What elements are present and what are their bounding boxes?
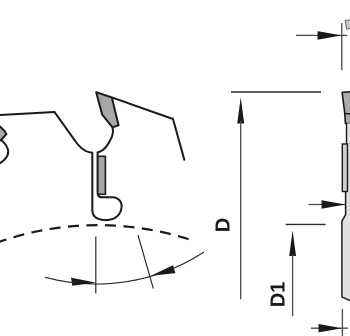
side-view carbide tooth (edge view, right) (342, 92, 350, 124)
top width dimension: extension line (341, 23, 343, 70)
angle arrowhead left (71, 278, 96, 286)
angle arrowhead right (151, 265, 176, 276)
top width dimension: arrowhead (318, 31, 342, 40)
dashed pitch-circle arc (0, 225, 190, 243)
angle dimension: slanted reference line (138, 235, 153, 289)
svg-text:D1: D1 (268, 282, 290, 308)
wire: saw rim outline with gullet and expansion slot (face view) (0, 97, 184, 220)
carbide tip fragment of left tooth (0, 125, 6, 141)
bottom width dimension: shaft (311, 327, 348, 329)
wire: left tooth gullet fragment (0, 140, 8, 164)
bottom width dimension: extension line (341, 309, 343, 336)
D1 reference line (286, 223, 326, 225)
dimension D line (240, 121, 242, 299)
angle dimension: radial reference line (vertical) (95, 237, 97, 294)
middle width dimension: shaft (309, 204, 346, 206)
dimension D1 arrow (289, 231, 296, 257)
side-view lower plate outline (342, 192, 350, 301)
angle dimension arc (45, 252, 204, 284)
D reference line (top of tooth, edge view) (231, 91, 321, 93)
side-view tooth seat line (345, 113, 350, 115)
top width dimension: shaft (296, 34, 347, 36)
bottom width dimension: arrowhead (319, 324, 343, 332)
svg-text:D: D (212, 218, 234, 232)
dimension D1 line (292, 254, 294, 316)
side-view plate body fill (343, 123, 350, 301)
middle width dimension: arrowhead (322, 200, 346, 209)
damping insert in slot (98, 156, 106, 194)
side-view plate upper edge (346, 123, 348, 144)
dimension D arrow (237, 98, 244, 124)
side-view damping insert bar (342, 144, 347, 192)
side-view next tooth sliver (top right) (345, 20, 350, 29)
carbide tip of middle tooth (96, 92, 118, 127)
